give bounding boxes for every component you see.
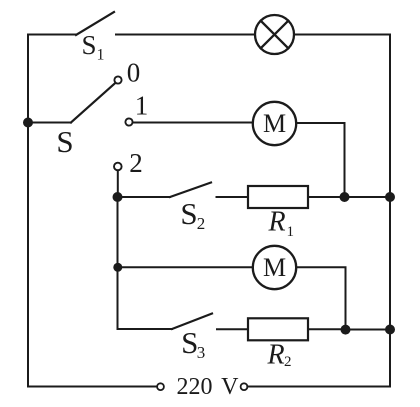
wire M2 row left bbox=[118, 266, 253, 268]
wire right edge bbox=[389, 35, 391, 386]
wire R2 to node B bbox=[308, 328, 346, 330]
terminal circle right bbox=[241, 383, 248, 390]
wire contact 2 down bbox=[117, 170, 119, 193]
wire lamp to right edge bbox=[294, 34, 390, 36]
node junction dot M2 row bbox=[113, 263, 122, 272]
wire left branch to S3 row bbox=[118, 267, 173, 329]
wire R1 to node A bbox=[308, 196, 345, 198]
svg-text:M: M bbox=[263, 253, 286, 282]
wire node B to right edge bbox=[346, 329, 391, 331]
wire S2 to R1 bbox=[217, 196, 249, 198]
wire left edge bbox=[27, 35, 29, 387]
node junction dot left edge bbox=[23, 118, 33, 128]
wire S1 to lamp bbox=[116, 34, 255, 36]
lamp L1 circle bbox=[255, 15, 294, 54]
lamp L1 cross bbox=[261, 21, 289, 49]
svg-text:S: S bbox=[81, 30, 96, 60]
svg-text:0: 0 bbox=[127, 58, 141, 88]
contact 2 circle bbox=[114, 163, 122, 171]
node dot right edge row1 bbox=[385, 192, 395, 202]
svg-text:1: 1 bbox=[135, 91, 149, 121]
wire S3 to R2 bbox=[217, 328, 248, 330]
wire left branch vertical bbox=[117, 197, 119, 267]
resistor R2 bbox=[248, 318, 308, 340]
switch S3 blade bbox=[172, 314, 212, 330]
resistor R1 bbox=[248, 186, 308, 208]
svg-text:R: R bbox=[266, 340, 284, 371]
svg-text:R: R bbox=[267, 207, 285, 238]
wire S2 stub bbox=[118, 196, 171, 198]
contact 1 circle bbox=[125, 118, 132, 125]
motor M2 circle bbox=[253, 246, 296, 289]
svg-text:1: 1 bbox=[97, 47, 105, 64]
svg-text:220 V: 220 V bbox=[177, 374, 240, 400]
switch S selector blade bbox=[71, 83, 116, 123]
wire M2 to node B bbox=[296, 267, 345, 324]
terminal circle left bbox=[157, 383, 164, 390]
motor M1 circle bbox=[253, 102, 296, 145]
wire bottom left bbox=[28, 386, 157, 388]
node B dot bbox=[341, 325, 351, 335]
wire node A to right edge bbox=[345, 196, 391, 198]
svg-text:S: S bbox=[56, 124, 73, 159]
wire selector stub bbox=[28, 122, 71, 124]
contact 0 circle bbox=[114, 76, 121, 83]
wire contact 1 to motor M1 bbox=[133, 122, 253, 124]
svg-text:2: 2 bbox=[284, 354, 292, 370]
node dot right edge row2 bbox=[385, 325, 395, 335]
wire top left segment bbox=[28, 34, 76, 36]
switch S1 blade bbox=[76, 12, 114, 35]
svg-text:S: S bbox=[180, 196, 197, 231]
node junction dot S2 row bbox=[113, 192, 123, 202]
node A dot bbox=[340, 192, 350, 202]
switch S2 blade bbox=[170, 183, 211, 198]
wire M1 to node A bbox=[296, 123, 344, 192]
svg-text:2: 2 bbox=[129, 148, 143, 178]
svg-text:2: 2 bbox=[197, 214, 206, 233]
wire bottom right bbox=[247, 386, 390, 388]
svg-text:3: 3 bbox=[197, 343, 206, 362]
svg-text:1: 1 bbox=[287, 224, 295, 240]
svg-text:M: M bbox=[263, 109, 286, 138]
